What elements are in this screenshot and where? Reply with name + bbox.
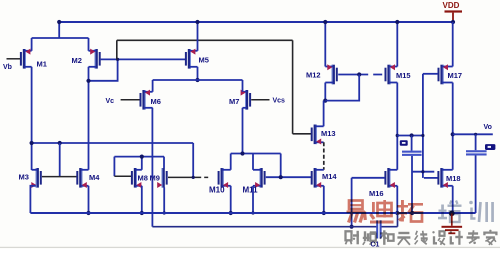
wire M17-M18 gate riser (422, 74, 424, 178)
node Vb (3, 64, 12, 71)
transistor M4 (76, 168, 88, 188)
svg-text:M17: M17 (448, 71, 463, 80)
node junction M9 M10 gate (192, 176, 195, 179)
label M3 (19, 173, 29, 182)
wire M12 gate line (338, 74, 359, 76)
svg-text:M15: M15 (396, 71, 411, 80)
transistor M2 (89, 49, 101, 69)
label M7 (229, 97, 239, 106)
svg-text:Vc: Vc (106, 98, 115, 105)
svg-text:M12: M12 (306, 71, 321, 80)
svg-text:M4: M4 (89, 173, 100, 182)
label M13 (321, 129, 336, 138)
wire ground rail (30, 212, 475, 214)
wire M12 diode loop (325, 75, 359, 101)
wire black net riser at M2 gate (116, 40, 118, 59)
node junction cap C ground (410, 211, 414, 215)
watermark logo text (347, 200, 494, 224)
node junction M4 source (86, 211, 90, 215)
label M2 (72, 56, 82, 65)
wire M1-M2 source rail (32, 37, 89, 39)
wire output Vo (453, 133, 493, 135)
label CL (485, 144, 495, 150)
node junction M7 drain (240, 151, 244, 155)
capacitor C (402, 136, 422, 214)
node junction output Vo (451, 132, 455, 136)
wire M17 drain to output (452, 83, 454, 170)
wire M8 drain riser (141, 157, 143, 170)
transistor M14 (311, 168, 324, 188)
transistor M3 (31, 168, 42, 188)
node junction mirror rail (58, 141, 62, 145)
label M1 (37, 60, 47, 69)
wire M6 source riser (152, 80, 154, 92)
label M9 (150, 174, 160, 183)
node junction M12 drain (323, 99, 327, 103)
wire M4 source down (88, 186, 90, 213)
node junction M5 source at rail (195, 20, 199, 24)
wire M17 source riser (452, 22, 454, 67)
svg-text:M2: M2 (72, 56, 82, 65)
svg-text:M11: M11 (243, 186, 259, 195)
wire M11 drain riser (252, 154, 254, 170)
label M10 (209, 186, 225, 195)
transistor M8 (131, 168, 142, 188)
svg-text:VDD: VDD (443, 1, 460, 10)
node junction M1 drain (30, 141, 34, 145)
node junction M12 gate (357, 72, 361, 76)
transistor M16 (384, 168, 397, 188)
svg-text:Vcs: Vcs (273, 98, 286, 105)
wire M18 source down (452, 186, 454, 214)
wire M11 source down (252, 186, 254, 213)
watermark slogan text (346, 230, 497, 245)
wire M13 drain riser (323, 101, 325, 127)
wire M7 source riser (242, 80, 244, 92)
node junction M12 source rail (323, 20, 327, 24)
transistor M12 (325, 64, 338, 84)
wire tail rail (153, 79, 243, 81)
wire M10 drain riser (230, 154, 232, 170)
wire mirror rail y143 (32, 142, 194, 144)
wire signal rail left (152, 226, 376, 228)
wire M14 source down (323, 186, 325, 213)
node junction M11 source (251, 211, 254, 214)
wire cap branch to gate riser (412, 171, 434, 173)
label M15 (396, 71, 411, 80)
label M6 (151, 97, 161, 106)
wire M16 gate line (352, 177, 385, 179)
wire M2 drain down (88, 67, 90, 170)
node junction branch riser (421, 170, 424, 173)
wire M9 gate lead (168, 176, 193, 178)
node junction stage2 node (396, 134, 399, 137)
wire M11-M14 gate line (266, 176, 312, 178)
wire M15 source riser (396, 22, 398, 67)
node junction M11 M14 gates (279, 175, 283, 179)
wire black net down to M13 gate (292, 40, 294, 134)
wire M8 source down (141, 186, 143, 213)
transistor M1 (20, 49, 32, 69)
wire M6 drain long down (151, 108, 153, 227)
node junction gate riser rail (421, 134, 424, 137)
wire M15 drain to M16 drain (396, 83, 398, 170)
scan artifact bottom line (0, 247, 500, 248)
power VDD symbol (443, 1, 463, 24)
svg-text:M3: M3 (19, 173, 29, 182)
node M2 drain junction (86, 79, 90, 83)
node junction ground big (449, 211, 455, 217)
wire M13 source to M14 drain (323, 142, 325, 170)
node junction M16 gate signal rail (350, 225, 354, 229)
node junction M5 drain tail (195, 78, 199, 82)
svg-text:Vo: Vo (484, 124, 492, 131)
wire M13 gate lead (293, 133, 312, 135)
svg-text:M18: M18 (446, 174, 461, 183)
svg-text:M16: M16 (369, 189, 384, 198)
label M14 (322, 172, 337, 181)
svg-text:M10: M10 (209, 186, 225, 195)
wire cascode rail y156 (114, 156, 164, 158)
wire corner down to gate node (280, 154, 282, 178)
transistor M9 (157, 168, 168, 188)
wire black net horizontal (117, 39, 293, 41)
wire M17 gate lead (423, 73, 438, 75)
label C1 (371, 242, 380, 249)
wire mid rail y153 (231, 153, 281, 155)
node junction M8 drain (140, 155, 144, 159)
label M8 (138, 174, 148, 183)
node Vc (106, 98, 115, 105)
transistor M15 (385, 64, 398, 84)
capacitor C1 (376, 220, 381, 238)
label M5 (199, 56, 209, 65)
wire M8 gate lead (114, 175, 131, 177)
wire M16 source down (396, 186, 398, 213)
wire M1 drain down to mirror rail (31, 67, 33, 170)
wire Vcs gate stub (251, 99, 269, 101)
wire signal rail riser (397, 213, 399, 227)
transistor M11 (253, 168, 266, 188)
transistor M13 (311, 125, 324, 145)
wire M18 gate lead (424, 177, 438, 179)
label M16 (369, 189, 384, 198)
wire VDD top rail (59, 21, 453, 23)
wire riser to M9 M10 gates (192, 143, 194, 177)
transistor M10 (218, 168, 231, 188)
label M11 (243, 186, 259, 195)
node junction M9 source (163, 211, 166, 214)
node Vo (484, 124, 492, 131)
wire M16 gate riser down (351, 178, 353, 227)
svg-text:M9: M9 (150, 174, 160, 183)
transistor M5 (185, 49, 198, 69)
wire M10 source down (230, 186, 232, 213)
transistor M17 (438, 64, 453, 84)
wire riser to sources rail (58, 22, 60, 38)
wire M3-M4 gate line (42, 176, 77, 178)
svg-text:M5: M5 (199, 56, 209, 65)
svg-text:M8: M8 (138, 174, 148, 183)
node junction M14 source (322, 211, 326, 215)
label M17 (448, 71, 463, 80)
wire stage2 rail y135 (397, 135, 423, 137)
svg-text:M6: M6 (151, 97, 161, 106)
transistor M6 (140, 90, 153, 110)
node junction top rail left (57, 20, 61, 24)
wire M2 gate line to M5 (101, 58, 186, 60)
node junction CL tap (474, 133, 477, 136)
svg-text:M7: M7 (229, 97, 239, 106)
label C (400, 140, 408, 145)
wire signal rail right (381, 226, 397, 228)
node Vcs (273, 98, 286, 105)
wire M12 drain (324, 83, 326, 101)
wire M7 drain down (242, 108, 244, 154)
node M2 gate junction (116, 58, 119, 61)
node junction M15 source rail (395, 20, 399, 24)
transistor M7 (241, 90, 252, 110)
node junction M8 source (140, 211, 144, 215)
svg-text:Vb: Vb (3, 64, 12, 71)
wire M12 source riser (324, 22, 326, 67)
label M4 (89, 173, 100, 182)
capacitor CL (466, 134, 487, 213)
wire M2 source riser (88, 38, 90, 51)
wire M9 drain drop (163, 157, 165, 169)
wire M5 drain (197, 67, 199, 80)
wire riser to M3 M4 gates (59, 143, 61, 177)
wire M2 gate-drain loop (89, 59, 118, 80)
wire M3 source lead (30, 186, 35, 213)
node junction cap C top (410, 133, 414, 137)
wire gate line to M10 (193, 176, 218, 178)
node junction M16 source (395, 211, 399, 215)
wire gate line dashes to M15 (359, 74, 385, 76)
wire Vc gate stub (121, 99, 140, 101)
label M18 (446, 174, 461, 183)
wire M5 source riser (197, 22, 199, 51)
wire riser M8 gate (113, 157, 115, 177)
wire M1 source riser (31, 38, 33, 51)
svg-text:M13: M13 (321, 129, 336, 138)
ground (442, 213, 463, 234)
wire M9 source down (163, 187, 165, 213)
transistor M18 (437, 168, 452, 188)
wire Vb gate stub (7, 58, 21, 60)
node junction M10 source (229, 211, 233, 215)
svg-text:M14: M14 (322, 172, 337, 181)
label M12 (306, 71, 321, 80)
svg-text:M1: M1 (37, 60, 47, 69)
